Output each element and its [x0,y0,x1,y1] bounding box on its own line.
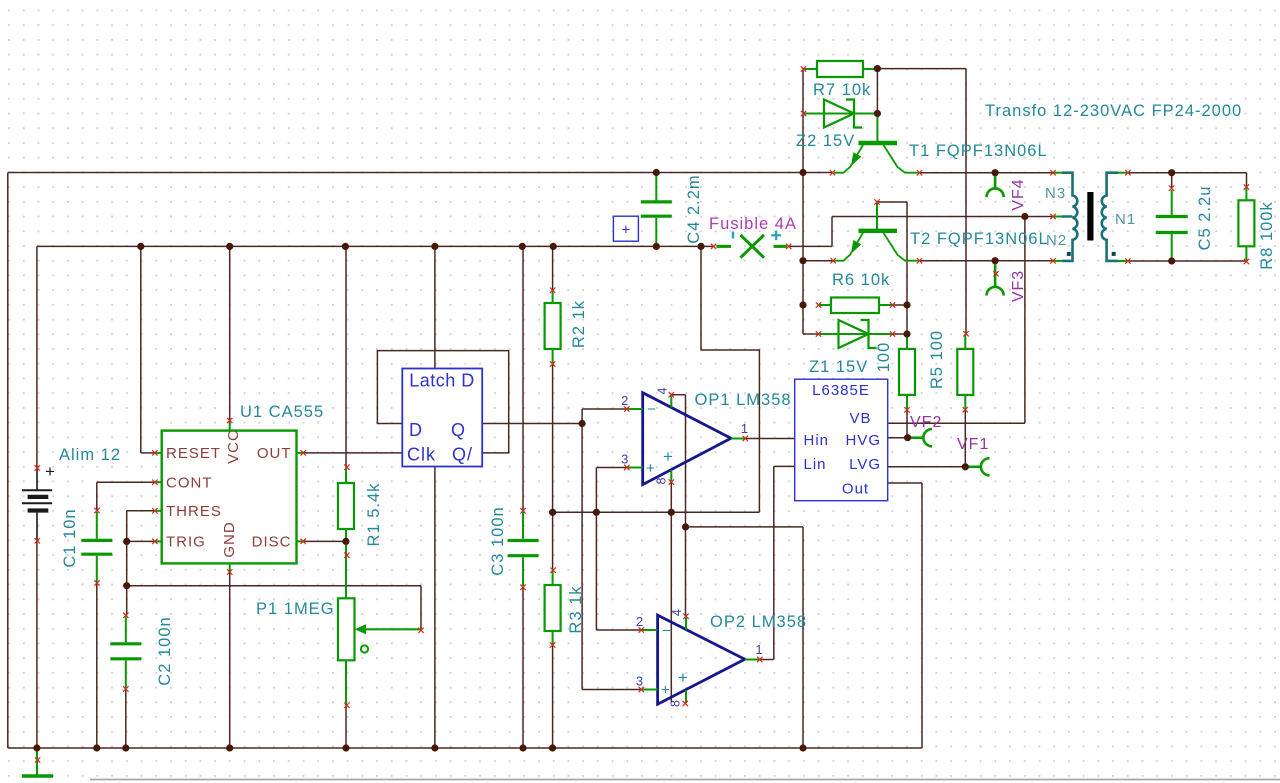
resistor R5 100 [957,331,973,412]
pin number OP1-3 [621,452,628,467]
svg-text:Latch D: Latch D [409,371,475,391]
capacitor C2 [110,613,141,692]
label T1 FQPF13N06L [909,142,1048,160]
wire C5 stubs [1171,173,1173,189]
op-amp OP1 minus mark [647,401,656,418]
probe VF2 [909,429,932,446]
wire T2 drain to N2 winding [920,260,1054,262]
svg-text:C5 2.2u: C5 2.2u [1196,186,1214,251]
resistor R8 [1238,184,1254,264]
op-amp OP2 LM358 [639,614,763,707]
svg-text:Q: Q [451,420,466,440]
wire R1 top feed x=346 [345,246,347,467]
label N3 [1045,185,1066,202]
svg-text:P1 1MEG: P1 1MEG [256,600,335,618]
svg-text:Q/: Q/ [452,445,473,465]
op-amp OP2 minus mark [662,623,671,640]
label L6385E [812,382,870,399]
svg-text:VCC: VCC [225,429,242,464]
op-amp OP1 plus mark pin3 [646,460,655,477]
wire N1 top to R8 [1128,173,1247,188]
svg-text:R8 100k: R8 100k [1258,201,1276,269]
pin number OP1-8 [655,477,669,484]
wire battery minus drop x=36.9 [36,541,38,748]
svg-text:−: − [662,623,671,640]
resistor R2 [545,288,561,367]
transformer winding N3/N2 [1050,170,1077,264]
label Transfo [985,102,1242,120]
wire battery plus riser x=36.9 [36,246,38,468]
svg-text:1: 1 [755,642,762,657]
label C4 2.2m [685,174,703,243]
svg-text:OP1 LM358: OP1 LM358 [695,391,792,409]
label C5 2.2u [1196,186,1214,251]
wire fuse to centre tap [789,217,1053,247]
wire DISC row [303,540,346,542]
wire latch vertical upper x=434.9 [434,246,436,368]
label VF1 [957,436,989,453]
label C1 10n [61,508,79,567]
transistor T1 FQPF13N06L [830,114,922,176]
probe VF3 [986,261,1003,296]
wire HVG row [888,437,908,439]
pin label VB [849,410,871,427]
resistor R1 [338,465,354,599]
svg-text:Fusible 4A: Fusible 4A [709,215,797,233]
zener Z1 15V [816,320,895,348]
pin label GND [221,521,238,557]
label C3 100n [489,506,507,575]
svg-text:8: 8 [669,700,683,707]
wire Q output to node [482,423,582,425]
wire R2 top feed x=552.6 [552,246,554,290]
wire TRIG chain down / C2 [125,541,128,748]
wire T2 source row [803,260,833,262]
ic U1 CA555 box [152,418,306,575]
pin number OP2-3 [636,674,643,689]
label R8 100k [1258,201,1276,269]
svg-text:Lin: Lin [804,456,827,473]
svg-text:C2 100n: C2 100n [156,616,174,685]
svg-text:HVG: HVG [845,432,881,449]
svg-text:1: 1 [741,421,748,436]
capacitor C3 [508,508,539,590]
label T2 FQPF13N06L [910,230,1049,248]
wire signal vertical x=582.1 [582,409,641,690]
wire T1 gate feed via x=966 [877,69,966,334]
pin number OP1-4 [656,387,670,394]
svg-text:R3 1k: R3 1k [567,585,585,633]
svg-text:T2 FQPF13N06L: T2 FQPF13N06L [910,230,1049,248]
pin label Out [842,480,869,497]
svg-text:R5 100: R5 100 [928,330,946,389]
wire latch vertical lower x=434.9 [434,467,436,749]
svg-text:Out: Out [842,480,869,497]
resistor 100 (T2 gate) [899,334,915,413]
svg-text:LVG: LVG [849,456,881,473]
svg-text:Alim 12: Alim 12 [59,446,121,464]
pin label HVG [845,432,881,449]
wire left bias vertical x=803 [803,69,819,334]
potentiometer P1 [338,553,424,708]
wire T1 drain to N3 winding [920,172,1054,174]
pin label THRES [166,503,222,520]
svg-text:Z2 15V: Z2 15V [796,132,855,150]
pin label Hin [804,432,830,449]
label Z2 15V [796,132,855,150]
wire P1 wiper link y=585.7 [127,586,421,630]
svg-text:N1: N1 [1115,211,1136,228]
pin number OP2-4 [670,609,684,616]
svg-text:OUT: OUT [257,445,292,462]
svg-text:VF4: VF4 [1010,178,1027,210]
op-amp OP2 plus mark pin3 [661,682,670,699]
wire P1 bottom drop [345,705,347,748]
svg-text:100: 100 [875,342,893,373]
pin label RESET [166,445,221,462]
battery Alim 12 [22,462,55,544]
wire VCC pin feed x=229.7 [229,246,231,420]
svg-text:+: + [678,668,688,687]
svg-text:−: − [647,401,656,418]
label Fusible 4A [709,215,797,233]
svg-text:2: 2 [636,614,643,629]
svg-text:4: 4 [656,387,670,394]
svg-text:L6385E: L6385E [812,382,870,399]
wire R3 bottom drop [552,645,554,748]
label VF4 [1010,178,1027,210]
wire CONT feed / C1 chain x=96.8 [97,482,155,748]
svg-text:CONT: CONT [166,474,213,491]
pin number OP1-2 [621,393,628,408]
svg-text:+: + [45,462,55,481]
svg-text:+: + [646,460,655,477]
svg-text:D: D [409,420,423,440]
pin label DISC [252,534,292,551]
svg-text:R7 10k: R7 10k [813,81,871,99]
pin label Lin [804,456,827,473]
wire Q/ to D loop [377,351,508,453]
svg-text:T1 FQPF13N06L: T1 FQPF13N06L [909,142,1048,160]
svg-text:VF2: VF2 [910,414,942,431]
svg-text:U1 CA555: U1 CA555 [240,403,324,421]
wire Z1 right link [893,333,908,335]
wire C3 top feed x=523 [522,246,524,510]
pin number OP2-8 [669,700,683,707]
label VF2 [910,414,942,431]
wire left vertical x=7.8 [7,173,9,749]
wire N1 bottom to R8 [1128,261,1247,262]
label N1 [1115,211,1136,228]
label U1 CA555 [240,403,324,421]
op-amp OP2 plus mark inner [678,668,688,687]
ic L6385E box [795,379,888,501]
svg-text:3: 3 [636,674,643,689]
wire OP1 pin4 to OP2 pin4 x=685.5 [671,395,685,617]
wire gate node T1 x=877.4 [876,69,878,114]
svg-text:TRIG: TRIG [166,534,206,551]
op-amp OP1 LM358 [624,392,748,485]
svg-text:GND: GND [221,521,238,557]
transformer core [1087,192,1093,241]
pin number OP2-2 [636,614,643,629]
svg-text:VF1: VF1 [957,436,989,453]
wire VB to centre tap [888,217,1025,424]
wire pin4 node to ground rail [686,527,804,748]
label R7 10k [813,81,871,99]
svg-text:C4 2.2m: C4 2.2m [685,174,703,243]
label R2 1k [570,300,588,348]
ground [22,748,53,776]
svg-text:Z1 15V: Z1 15V [809,358,868,376]
wire LVG row [888,410,966,467]
wire TRIG row [127,540,155,542]
op-amp OP1 plus mark inner [663,447,673,466]
wire R2 bottom to supply node [552,364,554,512]
svg-text:THRES: THRES [166,503,222,520]
svg-text:R6 10k: R6 10k [832,271,890,289]
wire R3 top [552,512,554,570]
svg-text:3: 3 [621,452,628,467]
wire THRES link [127,511,155,542]
pin number OP2-1 [755,642,762,657]
label OP2 LM358 [710,613,807,631]
svg-text:VF3: VF3 [1010,270,1027,302]
label Z1 15V [809,358,868,376]
svg-text:N3: N3 [1045,185,1066,202]
pin label Clk [407,445,436,465]
label R1 5.4k [365,483,383,547]
label R3 1k [567,585,585,633]
label R6 10k [832,271,890,289]
wire top rail y=172.5 (T1 source line) [8,172,833,174]
label Latch D [409,371,475,391]
wire RESET feed [141,246,155,453]
svg-text:Transfo 12-230VAC FP24-2000: Transfo 12-230VAC FP24-2000 [985,102,1242,120]
svg-text:VB: VB [849,410,871,427]
resistor R3 [545,568,561,648]
wire gate chain T2 x=907 [877,202,907,438]
pin label OUT [257,445,292,462]
svg-text:Clk: Clk [407,445,436,465]
svg-text:+: + [622,222,631,239]
pin label VCC [225,429,242,464]
svg-text:OP2 LM358: OP2 LM358 [710,613,807,631]
wire OUT to Clk [303,452,402,454]
pin label LVG [849,456,881,473]
wire OP1 pin8 vertical x=671.3 [670,482,672,701]
svg-text:2: 2 [621,393,628,408]
probe VF1 [967,458,990,475]
transistor T2 FQPF13N06L [831,199,923,263]
svg-text:Hin: Hin [804,432,830,449]
wire Lin / OP2 output x=773.8 [760,466,795,659]
capacitor C1 [81,508,112,586]
pin label Q/ [452,445,473,465]
pin label TRIG [166,534,206,551]
wire Out pin drop [888,483,922,748]
svg-text:DISC: DISC [252,534,292,551]
pin number OP1-1 [741,421,748,436]
wire R6 right link [893,304,908,306]
window edge line [90,779,1280,781]
label N2 [1046,232,1067,249]
svg-text:8: 8 [655,477,669,484]
pin label Q [451,420,466,440]
label VF3 [1010,270,1027,302]
label P1 1MEG [256,600,335,618]
svg-text:C1 10n: C1 10n [61,508,79,567]
svg-text:R1 5.4k: R1 5.4k [365,483,383,547]
svg-text:RESET: RESET [166,445,221,462]
wire OP1 pin3 / OP2 pin2 vertical x=596.4 [596,468,641,631]
wire bottom ground rail y=748 [8,747,922,749]
zener Z2 15V [801,100,878,128]
label 100 [875,342,893,373]
svg-text:N2: N2 [1046,232,1067,249]
transformer winding N1 [1102,170,1131,264]
svg-text:+: + [663,447,673,466]
wire VCC rail y=246.4 [37,245,714,247]
flip-flop Latch D box [402,369,482,467]
wire opamp supply y=512.3 [553,246,760,512]
label OP1 LM358 [695,391,792,409]
probe VF4 [986,174,1003,197]
label Alim 12 [59,446,121,464]
svg-text:+: + [661,682,670,699]
fuse Fusible 4A [711,231,792,258]
svg-text:C3 100n: C3 100n [489,506,507,575]
wire C3 bottom drop x=523 [522,587,524,748]
label C2 100n [156,616,174,685]
svg-text:4: 4 [670,609,684,616]
resistor R6 [816,298,895,314]
pin label CONT [166,474,213,491]
svg-text:R2 1k: R2 1k [570,300,588,348]
resistor R7 [801,61,878,77]
capacitor C4 [613,174,671,245]
wire OP1 output to Hin [745,438,794,440]
wire GND pin drop x=229.7 [229,572,231,748]
label R5 100 [928,330,946,389]
capacitor C5 [1156,186,1188,260]
pin label D [409,420,423,440]
